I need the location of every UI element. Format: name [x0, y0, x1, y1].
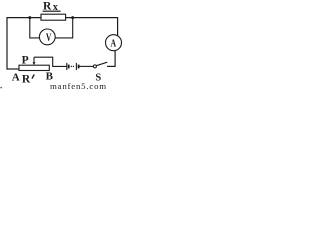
- svg-text:P: P: [22, 55, 29, 67]
- label Rx underline: [43, 11, 61, 12]
- svg-text:manfen5.com: manfen5.com: [50, 81, 107, 89]
- svg-text:R: R: [43, 0, 52, 12]
- battery cell 1 short plate: [68, 65, 70, 69]
- battery cell 2 short plate: [78, 65, 80, 69]
- wire: bottom-right horizontal (corner to switch contact): [107, 65, 116, 67]
- node: junction dot left: [28, 16, 31, 19]
- battery cell 1 long plate: [66, 63, 68, 70]
- wire: right vertical bottom (ammeter to corner): [114, 50, 116, 66]
- wire: right vertical top (to ammeter): [117, 17, 119, 36]
- switch S pivot: [93, 65, 96, 68]
- svg-text:R: R: [22, 74, 31, 86]
- rheostat R' box: [19, 65, 49, 70]
- svg-text:A: A: [12, 71, 20, 83]
- wire: top horizontal: [7, 17, 118, 19]
- wire: voltmeter right lead: [55, 18, 72, 38]
- wire: battery to switch: [79, 65, 93, 67]
- wire: voltmeter left lead: [30, 18, 40, 38]
- wire: slider to battery: [34, 57, 66, 66]
- ammeter A: [106, 35, 122, 51]
- rheostat slider arrow P: [33, 57, 35, 62]
- resistor Rx box: [41, 14, 66, 20]
- node: junction dot right: [71, 16, 74, 19]
- scan artifact dot bottom-left: [0, 87, 2, 89]
- voltmeter V: [39, 29, 55, 45]
- battery cell 2 long plate: [75, 63, 77, 70]
- wire: left vertical: [6, 17, 8, 70]
- svg-text:V: V: [46, 32, 52, 44]
- svg-text:A: A: [111, 38, 117, 50]
- switch S lever: [96, 62, 107, 65]
- wire: bottom-left to rheostat terminal A: [7, 68, 20, 70]
- battery dots (omitted cells): [71, 66, 72, 67]
